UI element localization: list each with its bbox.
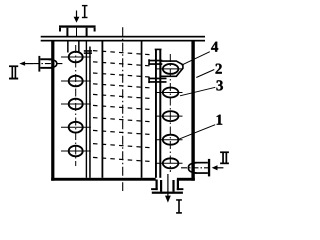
- left coil ellipse 4: [69, 122, 83, 133]
- vessel lid bottom line: [41, 40, 205, 42]
- top nozzle outer left wall: [66, 28, 68, 38]
- left coil ellipse 5: [69, 146, 83, 157]
- leader line to label 2: [196, 70, 214, 78]
- right coil ellipse 1 centerline: [157, 68, 183, 70]
- right nozzle pipe bottom wall: [195, 172, 208, 174]
- label 1: [217, 115, 223, 125]
- bottom nozzle left foot: [151, 188, 158, 190]
- vessel centerline dash-dot: [122, 27, 124, 191]
- right nozzle arrow head: [212, 165, 218, 170]
- label I bottom: [176, 199, 182, 214]
- left nozzle arrow line: [25, 63, 34, 64]
- right coil vertical centerline: [169, 54, 171, 172]
- right coil ellipse 5 centerline: [157, 162, 183, 164]
- bottom nozzle outer right wall: [177, 180, 179, 191]
- left nozzle rounded cap: [49, 59, 57, 67]
- left coil ellipse 2: [69, 76, 83, 87]
- vessel bottom plate right segment: [177, 178, 195, 181]
- left coil ellipse 3: [69, 99, 83, 110]
- vessel bottom plate left segment: [51, 178, 156, 181]
- right nozzle arrow line: [217, 167, 223, 168]
- left nozzle pipe bottom wall: [40, 67, 51, 69]
- leader line to label 1: [179, 125, 216, 140]
- vessel lid top line: [41, 36, 205, 38]
- left riser pipe right line: [89, 47, 91, 178]
- bottom arrow shaft: [167, 174, 168, 196]
- right riser left wall: [155, 50, 157, 178]
- right coil ellipse 2: [163, 88, 179, 98]
- left nozzle pipe top wall: [40, 58, 51, 60]
- right riser tab 2: [148, 77, 166, 83]
- right coil ellipse 2 centerline: [157, 92, 183, 94]
- vessel left wall: [51, 41, 54, 181]
- left coil vertical centerline: [75, 45, 77, 166]
- top inlet pipe right wall inside vessel: [78, 41, 80, 53]
- label 3: [216, 80, 222, 90]
- bottom nozzle right foot: [177, 188, 184, 190]
- right riser tab 1: [148, 59, 162, 65]
- top nozzle center line: [76, 28, 77, 36]
- left coil ellipse 3 centerline: [61, 103, 91, 105]
- left nozzle arrow head: [19, 61, 25, 65]
- right coil ellipse 1: [163, 64, 179, 74]
- left coil ellipse 1: [69, 52, 83, 63]
- label II left: [9, 65, 18, 79]
- bottom nozzle inner right wall: [172, 180, 174, 192]
- right nozzle rounded cap: [188, 163, 196, 173]
- vessel right wall: [191, 41, 194, 181]
- bottom arrow head: [165, 196, 171, 203]
- bottom nozzle flange plate: [152, 192, 183, 194]
- top nozzle flange right tick: [94, 28, 96, 32]
- right nozzle flange bar: [208, 159, 210, 177]
- sprayer stadium outline: [161, 61, 183, 76]
- arrow I top shaft: [76, 11, 77, 18]
- label I top: [82, 5, 88, 18]
- left nozzle flange bar: [38, 56, 40, 72]
- left coil ellipse 2 centerline: [61, 80, 91, 82]
- left coil ellipse 1 centerline: [61, 56, 91, 58]
- top inlet pipe left wall inside vessel: [67, 41, 69, 53]
- internal wall line B: [102, 41, 104, 178]
- right nozzle pipe top wall: [195, 162, 208, 164]
- left coil ellipse 5 centerline: [61, 150, 91, 152]
- bottom nozzle inner left wall: [160, 180, 162, 192]
- top nozzle flange: [59, 25, 96, 27]
- leader line to label 4: [182, 52, 210, 65]
- label 4: [211, 42, 218, 52]
- left coil ellipse 4 centerline: [61, 126, 91, 128]
- left riser pipe left line: [86, 42, 87, 178]
- right coil ellipse 3 centerline: [157, 115, 183, 117]
- arrow I top head: [74, 17, 80, 23]
- internal wall line C: [141, 41, 143, 178]
- leader line to label 3: [180, 87, 215, 96]
- left riser tab: [84, 50, 92, 54]
- right nozzle centerline dash-dot: [181, 167, 212, 169]
- spray dashed rows: [93, 51, 150, 162]
- top nozzle flange left tick: [59, 28, 61, 32]
- right coil ellipse 4: [163, 135, 179, 145]
- right coil ellipse 4 centerline: [157, 139, 183, 141]
- right coil ellipse 3: [163, 111, 179, 121]
- right coil ellipse 5: [163, 158, 179, 168]
- bottom nozzle outer left wall: [156, 180, 158, 191]
- right riser right wall: [159, 50, 161, 178]
- label 2: [216, 64, 222, 74]
- right riser cap: [155, 49, 162, 51]
- label II right: [220, 151, 229, 164]
- left nozzle centerline dash-dot: [33, 63, 64, 65]
- top nozzle outer right wall: [86, 28, 88, 38]
